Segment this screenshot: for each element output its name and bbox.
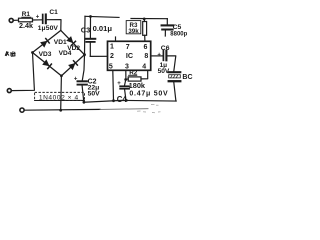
node C3 tap [89,15,92,18]
top rail segment 1 [85,16,119,17]
input terminal J2 (bottom) [7,89,11,93]
terminal bottom rail left [20,108,24,112]
resistor R2 [128,77,141,81]
svg-text:+: + [157,52,161,58]
svg-text:1N4002 × 4: 1N4002 × 4 [39,95,79,102]
node pin3/R2/C4 [124,78,127,81]
svg-text:2.4k: 2.4k [19,21,33,30]
resistor R1 [19,18,33,22]
diode VD4 [68,60,78,70]
wire BC to bottom rail [174,82,176,101]
svg-text:VD1: VD1 [54,39,67,46]
svg-text:5: 5 [109,63,113,70]
node left vertex [31,51,34,54]
svg-text:C3: C3 [81,26,90,35]
wire R2 to IC pin4 [141,70,148,79]
IC U1 (555) box [108,41,151,70]
diode VD2 [66,36,76,46]
node bottom vertex [60,74,63,77]
wire J1 to R1 [13,19,18,21]
wire C3 to IC pin2 [90,55,107,57]
capacitor C1 (electrolytic, + mark) [36,9,59,32]
dashed box 1N4002 x4 [35,92,85,100]
bridge wire L-B [33,53,62,76]
svg-text:1μ: 1μ [38,25,46,32]
svg-text:50V: 50V [46,25,59,32]
svg-text:8800p: 8800p [170,32,187,38]
IC pin stub top [115,37,117,41]
bottom lower rail [24,108,100,111]
svg-text:IC: IC [126,51,133,60]
wire C6 to BC [168,56,176,71]
wire J2 to bridge left node [11,53,34,91]
svg-text:C1: C1 [49,9,58,16]
node right vertex [83,53,86,56]
diode VD3 [42,59,52,69]
piezo sounder BC [169,72,181,81]
node R3 tap [143,18,146,21]
svg-text:+: + [36,15,40,21]
label waixian (chinese) [5,51,15,56]
wire C1 to bridge top node [47,20,61,31]
capacitor C3 [86,17,96,57]
svg-text:1: 1 [110,44,114,51]
svg-text:7: 7 [126,44,130,51]
wire R1 to C1 [33,19,43,21]
top rail segment 2 [131,18,167,20]
wire IC pin8 to C6 [151,55,163,57]
svg-text:VD4: VD4 [59,50,72,57]
resistor R3 [143,19,147,41]
capacitor C5 [162,25,174,36]
wire IC pin5 to bottom rail [112,70,115,100]
svg-text:+: + [117,81,121,87]
scan specks [137,104,161,113]
capacitor C2 (electrolytic) [74,76,87,102]
wire right vertex down to C2 [82,55,84,81]
bridge wire B-R [61,55,84,76]
svg-text:4: 4 [142,64,146,71]
wire bridge bottom to lower rail [60,76,63,110]
capacitor C4 (electrolytic) [117,80,129,101]
node lower rail bridge [59,109,62,112]
svg-text:0.47μ 50V: 0.47μ 50V [129,90,168,97]
svg-text:BC: BC [182,74,192,81]
input terminal J1 (top) [9,18,13,22]
svg-text:180k: 180k [129,81,146,90]
diode VD1 [40,38,50,48]
svg-text:+: + [74,76,78,82]
svg-text:VD3: VD3 [39,51,52,58]
node C4 rail [125,99,128,102]
node pin5 rail [112,99,115,102]
svg-text:2: 2 [110,53,114,60]
svg-text:39k: 39k [128,28,139,35]
svg-text:C5: C5 [173,24,182,31]
capacitor C6 (electrolytic) [157,51,166,61]
wire IC pin3 down [125,70,127,79]
svg-text:C6: C6 [161,45,170,52]
bridge wire T-R [61,30,85,54]
wire right vertex up to top rail corner [84,16,87,54]
svg-text:6: 6 [144,44,148,51]
bridge wire L-T [33,30,61,52]
resistor R3 label box [126,21,141,34]
node C2 rail [83,101,86,104]
svg-text:50V: 50V [88,91,101,98]
wire top rail corner down to C5 [166,19,168,25]
svg-text:0.01μ: 0.01μ [93,24,113,33]
svg-text:8: 8 [144,53,148,60]
bottom upper rail (DC minus bus) [84,100,176,102]
